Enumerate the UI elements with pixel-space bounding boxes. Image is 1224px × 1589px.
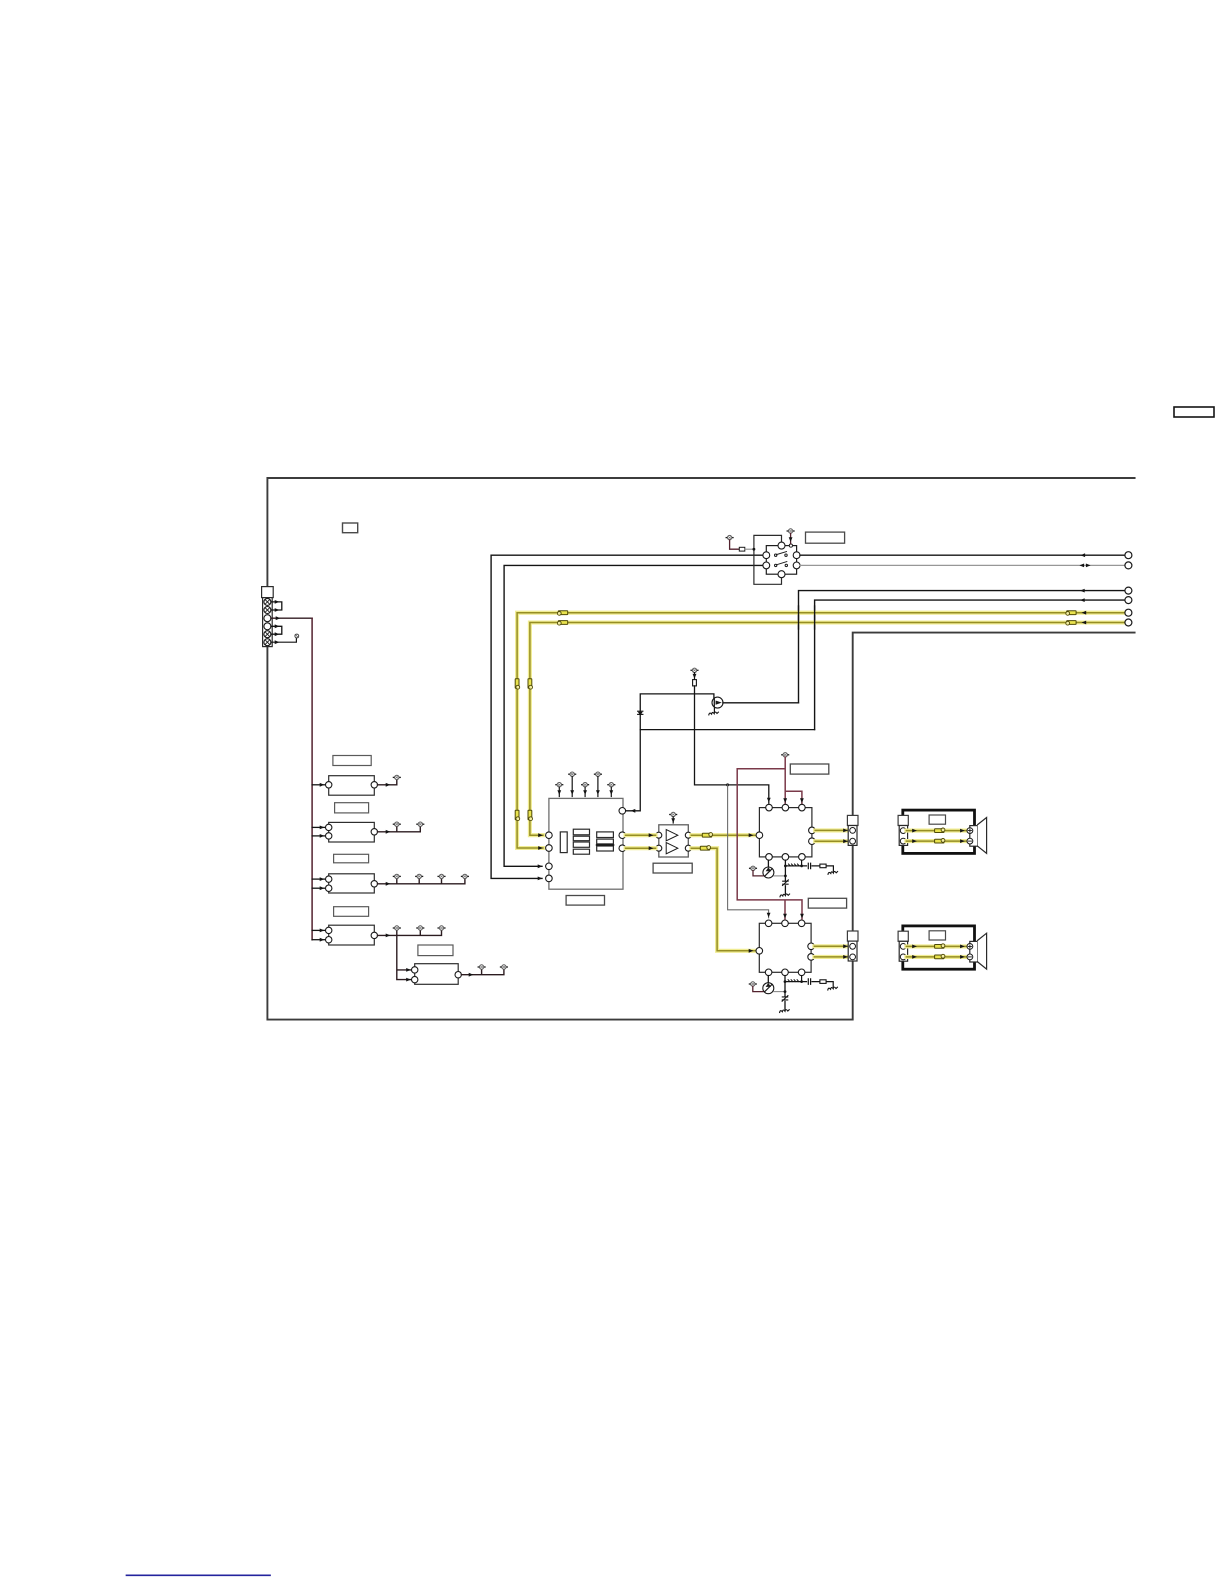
splice S13 bbox=[935, 944, 945, 949]
wire Q3 base bbox=[753, 986, 763, 991]
wire B4 input 2 bbox=[312, 939, 325, 941]
node B3 input pins bbox=[326, 876, 332, 892]
wire U2 out R (yellow) bbox=[691, 848, 755, 951]
amp block A2 bbox=[759, 923, 811, 972]
IC U1 right pins bbox=[619, 808, 626, 852]
speaker SP2 driver bbox=[970, 933, 987, 969]
wire B3 input 1 bbox=[312, 878, 325, 880]
wire audio in R (yellow) bbox=[530, 623, 1125, 836]
wire Q1 emitter bbox=[713, 708, 715, 712]
power tap IC pin D bbox=[595, 772, 602, 797]
node terminal T1 bbox=[1125, 552, 1132, 559]
wire mute branch bbox=[640, 729, 814, 731]
resistor R2 bbox=[820, 864, 826, 868]
SP1 connector bbox=[898, 815, 908, 845]
wire A2 pin2 ground chain bbox=[784, 976, 786, 997]
IC U1 internal register stack B bbox=[573, 829, 589, 854]
splice S11 bbox=[935, 828, 945, 833]
U2 label box bbox=[653, 863, 692, 873]
wire B4 to B5 feed bbox=[397, 935, 412, 979]
small label box top-left bbox=[343, 523, 358, 533]
sensor block B1 bbox=[329, 776, 375, 796]
ground R3 bbox=[828, 987, 838, 990]
speaker unit SP1 box bbox=[903, 810, 975, 853]
splice S9 bbox=[702, 833, 712, 838]
power tap P2b bbox=[417, 822, 424, 826]
sensor block B5 label bbox=[418, 945, 453, 956]
wire pull-up feed bbox=[695, 686, 769, 803]
connector J1 pin 4 bbox=[264, 623, 271, 630]
node junction J3 bbox=[784, 875, 787, 878]
connector J1 body bbox=[262, 587, 274, 647]
relay RL1 label box bbox=[806, 532, 845, 543]
wire pin 3 feed bbox=[271, 617, 312, 619]
wire relay coil feed bbox=[730, 540, 740, 549]
ground R2 bbox=[828, 871, 838, 874]
amplifier enclosure border bbox=[267, 478, 1134, 1020]
power tap P8 bbox=[691, 668, 698, 672]
splice S4 bbox=[557, 621, 567, 626]
relay RL1 switch contact A bbox=[775, 552, 788, 557]
node B5 input pins bbox=[412, 967, 418, 983]
SP1 label box bbox=[929, 815, 945, 824]
wire fuse to coil bbox=[745, 548, 754, 550]
node terminal T4 bbox=[1125, 597, 1132, 604]
SP1 plus terminal bbox=[967, 828, 973, 834]
fuse F1 bbox=[739, 547, 745, 551]
inductor L1 ticks bbox=[789, 864, 800, 866]
wire P7 to coil pin bbox=[790, 533, 792, 543]
node junction J8 bbox=[800, 980, 803, 983]
amp block A1 bbox=[759, 808, 812, 857]
node junction J5 bbox=[800, 865, 803, 868]
page tab box top-right bbox=[1174, 407, 1214, 417]
power tap P11 bbox=[749, 982, 756, 986]
wire pins 4-5 shield tie bbox=[271, 626, 282, 634]
ground tap G1 bbox=[295, 634, 299, 638]
splice S10 bbox=[700, 846, 710, 851]
wire P9 maroon feed bbox=[737, 757, 802, 919]
power tap IC pin A bbox=[556, 783, 563, 797]
node B5 output pin bbox=[455, 972, 461, 978]
power tap P1 bbox=[393, 775, 400, 779]
wire B5 output bbox=[461, 969, 504, 974]
IC U1 internal register bar A bbox=[560, 832, 567, 853]
splice S7 bbox=[515, 810, 520, 820]
ground A1 bbox=[780, 894, 790, 897]
wire relay to IC pin4 bbox=[491, 555, 763, 878]
node B4 input pins bbox=[326, 927, 332, 943]
sensor block B2 label bbox=[335, 803, 369, 813]
U2 pins bbox=[656, 832, 692, 851]
connector J1 pin 3 bbox=[264, 615, 271, 622]
wire B4 output bbox=[378, 930, 442, 935]
IC U1 label box bbox=[566, 896, 604, 906]
node junction J7 bbox=[784, 980, 787, 983]
power tap P5b bbox=[501, 965, 508, 969]
power tap P4a bbox=[393, 926, 400, 930]
splice S5 bbox=[515, 679, 520, 689]
op-amp U2b bbox=[666, 843, 678, 854]
wire B4 input 1 bbox=[312, 929, 325, 931]
node terminal T3 bbox=[1125, 587, 1132, 594]
wire A2 out L (yellow) bbox=[814, 944, 849, 948]
wire D2 to ground bbox=[784, 1002, 786, 1010]
splice S12 bbox=[935, 839, 945, 844]
SP1 minus terminal bbox=[967, 838, 973, 844]
ground A2 bbox=[780, 1010, 790, 1013]
splice S6 bbox=[528, 679, 533, 689]
power tap P6 bbox=[726, 535, 733, 539]
node B3 output pin bbox=[371, 881, 377, 887]
wire B2 input 1 bbox=[312, 826, 325, 828]
amp block A2 label box bbox=[808, 898, 846, 908]
sensor block B3 bbox=[329, 874, 375, 893]
splice S3 bbox=[557, 611, 567, 616]
wire B3 input 2 bbox=[312, 887, 325, 889]
wire IC to U2 R (yellow) bbox=[626, 846, 656, 850]
wire relay out 2 bbox=[800, 564, 1125, 566]
transistor Q3 bbox=[763, 976, 774, 994]
wire SP1 plus (yellow) bbox=[906, 829, 966, 833]
IC U1 internal dark bar bbox=[597, 844, 614, 846]
wire mute control from IC bbox=[626, 694, 714, 811]
node B1 output pin bbox=[371, 782, 377, 788]
amp block A2 pins bbox=[756, 920, 814, 976]
SP2 minus terminal bbox=[967, 954, 973, 960]
wire B2 output bbox=[378, 827, 421, 832]
wire SP2 minus (yellow) bbox=[906, 955, 966, 959]
wire D1 to ground bbox=[784, 886, 786, 894]
sensor block B2 bbox=[329, 822, 375, 842]
transistor Q1 bbox=[712, 697, 723, 708]
wire A1 snubber chain bbox=[785, 860, 833, 871]
IC U1 radio/navigation unit bbox=[549, 798, 623, 889]
zener D1 bbox=[783, 880, 789, 886]
power tap IC pin C bbox=[582, 783, 589, 797]
transistor Q2 bbox=[763, 860, 774, 878]
wire arrows into IC audio pins bbox=[538, 846, 543, 850]
wire B1 output bbox=[378, 780, 397, 785]
sensor block B4 label bbox=[334, 907, 369, 917]
node terminal T2 bbox=[1125, 562, 1132, 569]
splice S1 bbox=[1066, 611, 1076, 616]
op-amp U2a bbox=[666, 830, 678, 841]
node B2 output pin bbox=[371, 829, 377, 835]
power tap U2 bbox=[670, 812, 677, 823]
resistor R1 bbox=[693, 673, 697, 686]
resistor R3 bbox=[820, 980, 826, 984]
wire U2 out L (yellow) bbox=[691, 833, 756, 837]
SP2 connector bbox=[898, 931, 908, 961]
wire SP2 plus (yellow) bbox=[906, 945, 966, 949]
wire crossing overdraw bbox=[799, 606, 815, 629]
sensor block B4 bbox=[329, 925, 375, 945]
power tap P4b bbox=[417, 926, 424, 930]
power tap P5a bbox=[478, 965, 485, 969]
power tap P3c bbox=[438, 874, 445, 878]
wire A2 snubber chain bbox=[785, 976, 833, 987]
power tap P7 bbox=[787, 529, 794, 533]
power tap P3b bbox=[416, 874, 423, 878]
speaker unit SP2 box bbox=[903, 926, 975, 969]
connector C2 on border bbox=[847, 815, 858, 845]
wire mute line 1 bbox=[799, 591, 1125, 703]
wire A1 out L (yellow) bbox=[815, 829, 849, 833]
sensor block B5 bbox=[415, 964, 459, 985]
node B2 input pins bbox=[326, 824, 332, 839]
zener D2 bbox=[782, 996, 788, 1002]
SP2 label box bbox=[929, 931, 945, 940]
power tap P9 bbox=[782, 753, 789, 757]
wire relay to IC pin3 bbox=[504, 565, 763, 866]
power tap P3d bbox=[462, 874, 469, 878]
power tap P4c bbox=[438, 926, 445, 930]
IC U1 internal register stack C bbox=[597, 832, 614, 851]
power tap IC pin B bbox=[569, 772, 576, 797]
amp block A1 pins bbox=[756, 804, 815, 860]
node junction J6 bbox=[784, 990, 787, 993]
power tap P3a bbox=[393, 874, 400, 878]
wire mute line 2 bbox=[815, 600, 1125, 730]
wire SP1 minus (yellow) bbox=[906, 839, 966, 843]
sensor block B3 label bbox=[334, 854, 369, 863]
SP2 plus terminal bbox=[967, 944, 973, 950]
wire Q1 collector out bbox=[723, 702, 799, 704]
node junction J2 bbox=[726, 783, 729, 786]
capacitor C1 bbox=[808, 863, 810, 868]
splice S8 bbox=[528, 810, 533, 820]
splice S14 bbox=[935, 954, 945, 959]
node B1 input pin bbox=[326, 782, 332, 788]
wire pin 6 ground stub bbox=[271, 639, 296, 643]
connector C3 on border bbox=[847, 931, 858, 961]
node relay coil pin bbox=[789, 544, 792, 547]
wire relay out 1 bbox=[800, 554, 1125, 556]
wire audio in L (yellow) bbox=[517, 613, 1125, 848]
power tap P2a bbox=[393, 822, 400, 826]
wire A2 out R (yellow) bbox=[814, 955, 849, 959]
footer rule bbox=[127, 1574, 271, 1576]
wire IC to U2 L (yellow) bbox=[626, 833, 656, 837]
capacitor C2 bbox=[808, 979, 810, 984]
node B4 output pin bbox=[371, 932, 377, 938]
power tap IC pin E bbox=[608, 783, 615, 797]
wire pins 1-2 shield tie bbox=[271, 602, 282, 610]
wire A1 out R (yellow) bbox=[815, 839, 849, 843]
relay RL1 switch contact B bbox=[775, 562, 788, 567]
speaker SP1 driver bbox=[970, 818, 987, 854]
amplifier buffer U2 bbox=[659, 825, 689, 857]
wire Q3 emitter bbox=[774, 991, 785, 993]
node junction J4 bbox=[784, 865, 787, 868]
connector J1 pin 2 bbox=[264, 607, 271, 614]
connector J1 pin 1 bbox=[264, 598, 271, 605]
relay RL1 contact box bbox=[766, 546, 796, 575]
wire B2 input 2 bbox=[312, 835, 325, 837]
inductor L2 ticks bbox=[788, 980, 799, 982]
wire main feed vertical bbox=[311, 618, 313, 940]
ground Q1 bbox=[709, 712, 719, 715]
IC U1 left pins bbox=[546, 832, 553, 882]
node terminal T5 bbox=[1125, 609, 1132, 616]
connector J1 pin 5 bbox=[264, 631, 271, 638]
relay RL1 pins bbox=[763, 542, 800, 578]
wire ground reference net bbox=[728, 785, 769, 918]
node terminal T6 bbox=[1125, 619, 1132, 626]
node coil junction bbox=[753, 548, 756, 551]
wire B1 input bbox=[312, 784, 325, 786]
splice S2 bbox=[1066, 621, 1076, 626]
relay RL1 coil frame bbox=[754, 535, 782, 584]
wire Q2 emitter bbox=[774, 875, 786, 877]
power tap P10 bbox=[750, 866, 757, 870]
wire B3 output bbox=[378, 879, 465, 884]
amp block A1 label box bbox=[790, 764, 829, 774]
wire A1 pin2 ground chain bbox=[784, 860, 786, 881]
sensor block B1 label bbox=[333, 756, 371, 766]
connector J1 pin 6 bbox=[264, 639, 271, 646]
wire Q2 base bbox=[753, 871, 763, 876]
